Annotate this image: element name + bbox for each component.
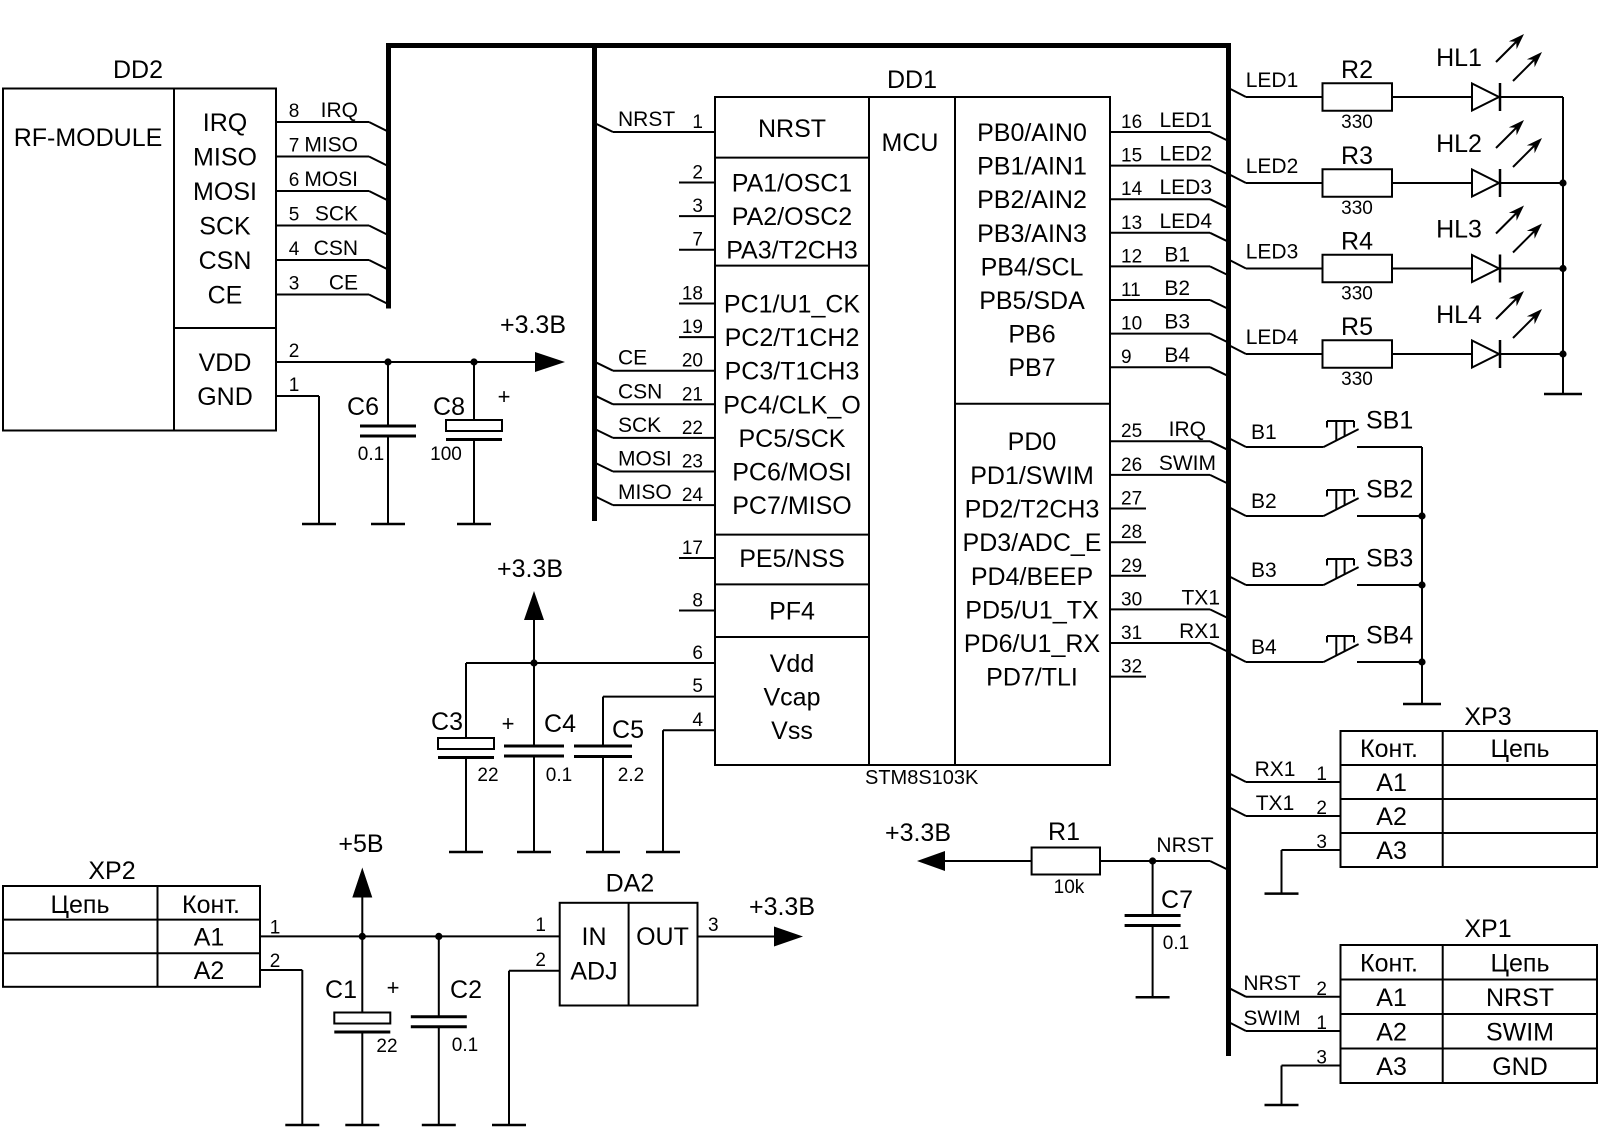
svg-text:22: 22	[477, 765, 498, 786]
capacitor C6	[387, 362, 389, 426]
ground (SB rail)	[1403, 703, 1441, 706]
svg-text:B1: B1	[1251, 421, 1277, 444]
svg-text:MOSI: MOSI	[304, 168, 358, 191]
svg-text:A1: A1	[1376, 984, 1407, 1012]
svg-text:OUT: OUT	[636, 923, 689, 951]
svg-text:0.1: 0.1	[546, 765, 572, 786]
svg-text:R1: R1	[1048, 818, 1080, 846]
DD2 pin 8 wire, net IRQ	[276, 121, 369, 123]
led HL4	[1472, 341, 1499, 368]
ground (XP3 pin 3)	[1265, 892, 1299, 895]
svg-text:PB7: PB7	[1008, 354, 1055, 382]
XP3 pin 2 wire, net TX1	[1229, 807, 1247, 816]
svg-text:C2: C2	[450, 976, 482, 1004]
ground (LED rail)	[1544, 393, 1582, 396]
svg-text:DD1: DD1	[887, 66, 937, 94]
svg-text:MCU: MCU	[882, 129, 939, 157]
svg-text:24: 24	[682, 485, 704, 506]
ground (XP1 pin 3)	[1265, 1104, 1299, 1107]
DD1 pin 13 wire, net LED4	[1110, 232, 1210, 234]
svg-text:PB4/SCL: PB4/SCL	[981, 253, 1084, 281]
power +3.3V arrow (Vdd)	[533, 620, 535, 663]
svg-text:XP2: XP2	[88, 857, 135, 885]
svg-text:SCK: SCK	[618, 414, 661, 437]
svg-text:2: 2	[535, 950, 546, 971]
svg-text:0.1: 0.1	[1163, 933, 1189, 954]
svg-text:C1: C1	[325, 976, 357, 1004]
svg-text:29: 29	[1121, 556, 1142, 577]
svg-text:NRST: NRST	[618, 108, 675, 131]
DD1 pin 24 wire, net MISO	[595, 496, 614, 505]
button SB2	[1324, 498, 1359, 516]
svg-text:NRST: NRST	[1243, 972, 1300, 995]
svg-text:SB2: SB2	[1366, 476, 1413, 504]
svg-text:R5: R5	[1341, 313, 1373, 341]
svg-text:SWIM: SWIM	[1486, 1018, 1554, 1046]
DD1 pin 27 stub	[1110, 508, 1146, 510]
XP2 pin 2 wire to ground	[260, 969, 302, 971]
svg-text:PF4: PF4	[769, 598, 815, 626]
svg-text:30: 30	[1121, 589, 1142, 610]
svg-text:DD2: DD2	[113, 56, 163, 84]
svg-text:PC5/SCK: PC5/SCK	[739, 425, 846, 453]
svg-text:SWIM: SWIM	[1243, 1007, 1300, 1030]
svg-text:2.2: 2.2	[618, 765, 644, 786]
svg-text:31: 31	[1121, 623, 1142, 644]
svg-text:B1: B1	[1164, 243, 1190, 266]
rf-module DD2 body	[3, 89, 276, 431]
ground (C7)	[1136, 996, 1170, 999]
svg-text:PC7/MISO: PC7/MISO	[732, 492, 851, 520]
svg-text:RF-MODULE: RF-MODULE	[14, 124, 163, 152]
svg-text:SB3: SB3	[1366, 545, 1413, 573]
svg-text:B4: B4	[1164, 344, 1190, 367]
svg-text:PC2/T1CH2: PC2/T1CH2	[725, 324, 860, 352]
wire bus to SB3, net B3	[1229, 576, 1247, 585]
svg-text:XP1: XP1	[1464, 915, 1511, 943]
ground (C3)	[449, 851, 483, 854]
junction dot +5V/C1	[359, 933, 366, 940]
DD2 pin 6 wire, net MOSI	[276, 190, 369, 192]
svg-text:MOSI: MOSI	[618, 448, 672, 471]
DD1 pin 20 wire, net CE	[595, 362, 614, 371]
svg-text:100: 100	[430, 444, 462, 465]
junction dot rail/HL3	[1559, 265, 1566, 272]
svg-text:Цепь: Цепь	[51, 891, 110, 919]
svg-text:R3: R3	[1341, 142, 1373, 170]
ground (Vss)	[646, 851, 680, 854]
svg-text:LED4: LED4	[1246, 326, 1299, 349]
junction dot rail/HL4	[1559, 350, 1566, 357]
DD2 pin 2 VDD wire to +3.3V	[276, 361, 535, 363]
svg-text:A2: A2	[194, 957, 225, 985]
svg-text:MISO: MISO	[193, 144, 257, 172]
DA2 pin 2 ADJ wire	[509, 970, 560, 972]
svg-text:IRQ: IRQ	[1169, 418, 1206, 441]
svg-text:3: 3	[1316, 832, 1327, 853]
ground (XP2 pin 2)	[285, 1124, 319, 1127]
svg-text:RX1: RX1	[1255, 758, 1296, 781]
power +5V arrow	[361, 898, 363, 937]
DD1 pin 28 stub	[1110, 541, 1146, 543]
svg-text:B3: B3	[1164, 311, 1190, 334]
svg-text:A2: A2	[1376, 1018, 1407, 1046]
button SB3	[1324, 567, 1359, 585]
svg-text:PB3/AIN3: PB3/AIN3	[977, 220, 1087, 248]
svg-text:CSN: CSN	[199, 247, 252, 275]
svg-text:MISO: MISO	[304, 134, 358, 157]
wire SB2 to rail	[1357, 515, 1422, 517]
connector XP3 table	[1341, 731, 1598, 867]
svg-text:GND: GND	[1492, 1053, 1548, 1081]
svg-text:PD7/TLI: PD7/TLI	[986, 664, 1078, 692]
svg-text:DA2: DA2	[606, 870, 655, 898]
svg-text:+: +	[502, 711, 515, 736]
svg-text:SWIM: SWIM	[1159, 452, 1216, 475]
wire SB common rail	[1421, 447, 1423, 704]
svg-text:22: 22	[682, 418, 703, 439]
wire bus to SB4, net B4	[1229, 653, 1247, 662]
svg-text:2: 2	[289, 341, 300, 362]
svg-text:2: 2	[1316, 979, 1327, 1000]
svg-text:PB1/AIN1: PB1/AIN1	[977, 153, 1087, 181]
capacitor C1 (polarized)	[361, 936, 363, 1012]
DD2 pin 7 wire, net MISO	[276, 156, 369, 158]
svg-text:SB4: SB4	[1366, 622, 1413, 650]
svg-text:Vdd: Vdd	[770, 650, 814, 678]
svg-text:PD0: PD0	[1008, 428, 1057, 456]
connector XP2 table	[3, 886, 260, 987]
svg-text:4: 4	[289, 239, 300, 260]
wire bus vertical right	[1226, 43, 1231, 1056]
svg-text:PA2/OSC2: PA2/OSC2	[732, 203, 852, 231]
svg-text:1: 1	[1316, 764, 1327, 785]
resistor R5	[1323, 340, 1393, 368]
DD1 pin 12 wire, net B1	[1110, 265, 1210, 267]
svg-text:+5В: +5В	[338, 830, 383, 858]
svg-text:PD1/SWIM: PD1/SWIM	[970, 462, 1094, 490]
svg-text:NRST: NRST	[1486, 984, 1554, 1012]
svg-text:+3.3В: +3.3В	[497, 555, 563, 583]
svg-text:+: +	[387, 975, 400, 1000]
wire R4 to HL3	[1392, 268, 1472, 270]
junction dot rail/SB3	[1418, 581, 1425, 588]
DD1 pin 26 wire, net SWIM	[1110, 474, 1210, 476]
svg-text:PB6: PB6	[1008, 321, 1055, 349]
svg-text:1: 1	[289, 375, 300, 396]
svg-text:LED2: LED2	[1159, 143, 1212, 166]
svg-text:330: 330	[1341, 112, 1373, 133]
power +3.3V arrow (DA2 OUT)	[774, 927, 803, 947]
power +3.3V arrow (R1)	[917, 851, 945, 871]
DD1 pin 22 wire, net SCK	[595, 429, 614, 438]
svg-text:PA3/T2CH3: PA3/T2CH3	[726, 237, 858, 265]
XP1 pin 1 wire, net SWIM	[1229, 1022, 1247, 1031]
svg-text:21: 21	[682, 384, 703, 405]
svg-text:C5: C5	[612, 716, 644, 744]
svg-text:HL2: HL2	[1436, 130, 1482, 158]
svg-text:CE: CE	[618, 347, 647, 370]
capacitor C5	[574, 745, 632, 748]
svg-text:R2: R2	[1341, 56, 1373, 84]
svg-text:LED3: LED3	[1159, 176, 1212, 199]
regulator DA2 body	[560, 903, 698, 1006]
svg-text:5: 5	[692, 676, 703, 697]
ground (C1)	[345, 1124, 379, 1127]
svg-text:SB1: SB1	[1366, 407, 1413, 435]
svg-text:HL3: HL3	[1436, 216, 1482, 244]
resistor R1	[945, 860, 1032, 862]
svg-text:PD3/ADC_E: PD3/ADC_E	[963, 529, 1102, 557]
svg-text:8: 8	[289, 101, 300, 122]
svg-text:11: 11	[1121, 280, 1141, 301]
DD1 pin 5 Vcap wire	[603, 696, 715, 698]
svg-text:3: 3	[708, 915, 719, 936]
svg-text:MOSI: MOSI	[193, 178, 257, 206]
junction dot rail/HL2	[1559, 179, 1566, 186]
wire power/signal bus top horizontal	[389, 43, 1229, 48]
svg-text:10k: 10k	[1054, 877, 1085, 898]
svg-text:+3.3В: +3.3В	[885, 819, 951, 847]
DD1 pin 10 wire, net B3	[1110, 333, 1210, 335]
svg-text:PD5/U1_TX: PD5/U1_TX	[965, 596, 1099, 624]
svg-text:Vss: Vss	[771, 717, 813, 745]
DD2 pin 5 wire, net SCK	[276, 225, 369, 227]
DD1 pin 25 wire, net IRQ	[1110, 440, 1210, 442]
svg-text:B2: B2	[1251, 490, 1277, 513]
svg-text:28: 28	[1121, 522, 1142, 543]
svg-text:RX1: RX1	[1179, 620, 1220, 643]
svg-text:1: 1	[692, 112, 703, 133]
wire R1 to bus, net NRST	[1210, 861, 1229, 870]
svg-text:+3.3В: +3.3В	[500, 311, 566, 339]
svg-text:Конт.: Конт.	[182, 891, 240, 919]
svg-text:MISO: MISO	[618, 481, 672, 504]
DD1 pin 23 wire, net MOSI	[595, 463, 614, 472]
svg-text:CE: CE	[329, 272, 358, 295]
wire HL2 to rail	[1500, 182, 1563, 184]
button SB4	[1324, 644, 1359, 662]
svg-text:VDD: VDD	[199, 349, 252, 377]
svg-text:3: 3	[692, 196, 703, 217]
svg-text:C3: C3	[431, 708, 463, 736]
svg-text:A3: A3	[1376, 1053, 1407, 1081]
ground (C8)	[457, 523, 491, 526]
svg-text:PC4/CLK_O: PC4/CLK_O	[723, 391, 861, 419]
power +3.3V arrow (DD2 VDD)	[535, 352, 565, 372]
wire HL3 to rail	[1500, 268, 1563, 270]
svg-text:GND: GND	[197, 383, 253, 411]
svg-text:PD4/BEEP: PD4/BEEP	[971, 563, 1093, 591]
DD2 pin 1 GND wire	[276, 395, 319, 397]
capacitor C4	[533, 663, 535, 746]
svg-text:27: 27	[1121, 489, 1142, 510]
svg-text:C8: C8	[433, 393, 465, 421]
DD1 pin 1 NRST wire from bus	[595, 123, 614, 132]
svg-text:Vcap: Vcap	[764, 684, 821, 712]
wire bus vertical middle (DD1 left side)	[592, 43, 597, 521]
led HL2	[1472, 170, 1499, 197]
svg-text:LED2: LED2	[1246, 155, 1299, 178]
svg-text:1: 1	[1316, 1013, 1327, 1034]
resistor R3	[1323, 169, 1393, 197]
DD2 pin 4 wire, net CSN	[276, 259, 369, 261]
wire bus to R5, net LED4	[1229, 345, 1247, 354]
junction dot VDD/C8	[470, 358, 477, 365]
DD1 pin 6 Vdd wire	[466, 662, 715, 664]
svg-text:8: 8	[692, 591, 703, 612]
svg-text:PC3/T1CH3: PC3/T1CH3	[725, 358, 860, 386]
XP2 pin 1 wire (+5V rail)	[260, 935, 560, 937]
svg-text:3: 3	[1316, 1048, 1327, 1069]
svg-text:PC1/U1_CK: PC1/U1_CK	[724, 291, 860, 319]
ground (C5)	[586, 851, 620, 854]
svg-text:25: 25	[1121, 421, 1142, 442]
wire HL4 to rail	[1500, 353, 1563, 355]
svg-text:14: 14	[1121, 179, 1143, 200]
button SB1	[1324, 429, 1359, 447]
svg-text:13: 13	[1121, 213, 1142, 234]
DD1 pin 30 wire, net TX1	[1110, 608, 1210, 610]
wire SB3 to rail	[1357, 584, 1422, 586]
svg-text:22: 22	[376, 1036, 397, 1057]
svg-text:4: 4	[692, 710, 703, 731]
svg-text:0.1: 0.1	[358, 444, 384, 465]
svg-text:HL1: HL1	[1436, 44, 1482, 72]
DD1 pin 7 stub	[679, 249, 715, 251]
svg-text:PA1/OSC1: PA1/OSC1	[732, 170, 852, 198]
svg-text:Конт.: Конт.	[1360, 950, 1418, 978]
svg-text:TX1: TX1	[1256, 792, 1295, 815]
svg-text:A3: A3	[1376, 837, 1407, 865]
wire SB4 to rail	[1357, 661, 1422, 663]
svg-text:PD6/U1_RX: PD6/U1_RX	[964, 630, 1100, 658]
wire R3 to HL2	[1392, 182, 1472, 184]
svg-text:ADJ: ADJ	[570, 958, 617, 986]
svg-text:16: 16	[1121, 112, 1142, 133]
svg-text:330: 330	[1341, 284, 1373, 305]
ground (DD2 GND)	[302, 523, 336, 526]
ground (C6)	[371, 523, 405, 526]
svg-text:PB5/SDA: PB5/SDA	[979, 287, 1085, 315]
svg-text:Конт.: Конт.	[1360, 735, 1418, 763]
wire R2 to HL1	[1392, 96, 1472, 98]
svg-text:+: +	[498, 384, 511, 409]
svg-text:PE5/NSS: PE5/NSS	[739, 545, 845, 573]
connector XP1 table	[1341, 945, 1598, 1083]
junction dot C2	[435, 933, 442, 940]
wire R5 to HL4	[1392, 353, 1472, 355]
DD1 pin 11 wire, net B2	[1110, 299, 1210, 301]
junction dot R1/C7	[1149, 857, 1156, 864]
wire bus to R4, net LED3	[1229, 260, 1247, 269]
svg-text:PB0/AIN0: PB0/AIN0	[977, 119, 1087, 147]
svg-text:SCK: SCK	[315, 203, 358, 226]
DD1 pin 18 stub	[679, 303, 715, 305]
DD1 pin 8 stub	[679, 610, 715, 612]
wire bus to R3, net LED2	[1229, 174, 1247, 183]
svg-text:B4: B4	[1251, 636, 1277, 659]
svg-text:IN: IN	[582, 923, 607, 951]
resistor R2	[1323, 83, 1393, 111]
svg-text:HL4: HL4	[1436, 301, 1482, 329]
DD1 pin 31 wire, net RX1	[1110, 642, 1210, 644]
svg-text:+3.3В: +3.3В	[749, 893, 815, 921]
svg-text:CE: CE	[208, 282, 243, 310]
DD1 pin 16 wire, net LED1	[1110, 131, 1210, 133]
svg-text:A1: A1	[1376, 769, 1407, 797]
svg-text:2: 2	[1316, 798, 1327, 819]
svg-text:PC6/MOSI: PC6/MOSI	[732, 459, 851, 487]
svg-text:26: 26	[1121, 455, 1142, 476]
svg-text:IRQ: IRQ	[203, 109, 247, 137]
capacitor C3 (polarized)	[465, 663, 467, 738]
svg-text:7: 7	[289, 136, 300, 157]
svg-text:C7: C7	[1161, 886, 1193, 914]
svg-text:LED3: LED3	[1246, 241, 1299, 264]
wire bus to R2, net LED1	[1229, 88, 1247, 97]
resistor R4	[1323, 255, 1393, 283]
svg-text:R4: R4	[1341, 228, 1373, 256]
DD1 pin 32 stub	[1110, 676, 1146, 678]
svg-text:NRST: NRST	[1156, 834, 1213, 857]
XP3 pin 3 wire to ground	[1282, 849, 1341, 851]
DD1 pin 9 wire, net B4	[1110, 366, 1210, 368]
svg-text:CSN: CSN	[618, 380, 662, 403]
svg-text:2: 2	[270, 951, 281, 972]
DD1 pin 17 stub	[679, 557, 715, 559]
svg-text:LED4: LED4	[1159, 210, 1212, 233]
svg-text:B2: B2	[1164, 277, 1190, 300]
DD1 pin 15 wire, net LED2	[1110, 165, 1210, 167]
capacitor C2	[438, 936, 440, 1016]
DD1 pin 2 stub	[679, 182, 715, 184]
DD1 pin 3 stub	[679, 215, 715, 217]
svg-text:CSN: CSN	[314, 237, 358, 260]
wire LED cathode rail	[1562, 97, 1564, 394]
svg-text:A1: A1	[194, 923, 225, 951]
svg-text:32: 32	[1121, 657, 1142, 678]
led HL1	[1472, 84, 1499, 111]
svg-text:12: 12	[1121, 246, 1142, 267]
svg-text:15: 15	[1121, 146, 1142, 167]
svg-text:9: 9	[1121, 347, 1132, 368]
ground (C2)	[422, 1124, 456, 1127]
svg-text:19: 19	[682, 317, 703, 338]
DD1 pin 4 Vss wire	[663, 729, 715, 731]
svg-text:A2: A2	[1376, 803, 1407, 831]
svg-text:330: 330	[1341, 198, 1373, 219]
svg-text:3: 3	[289, 274, 300, 295]
DD2 pin 3 wire, net CE	[276, 294, 369, 296]
wire bus vertical left (DD2 side)	[386, 43, 391, 309]
svg-text:5: 5	[289, 205, 300, 226]
svg-text:23: 23	[682, 452, 703, 473]
svg-text:2: 2	[692, 163, 703, 184]
junction dot rail/SB4	[1418, 658, 1425, 665]
DD1 pin 21 wire, net CSN	[595, 395, 614, 404]
svg-text:10: 10	[1121, 314, 1142, 335]
capacitor C8 (polarized)	[473, 362, 475, 420]
svg-text:6: 6	[692, 643, 703, 664]
DD1 pin 19 stub	[679, 336, 715, 338]
svg-text:XP3: XP3	[1464, 703, 1511, 731]
svg-text:0.1: 0.1	[452, 1035, 478, 1056]
svg-text:C6: C6	[347, 393, 379, 421]
DA2 pin 3 OUT wire	[698, 936, 775, 938]
XP1 pin 3 wire to ground	[1282, 1065, 1341, 1067]
svg-text:6: 6	[289, 170, 300, 191]
